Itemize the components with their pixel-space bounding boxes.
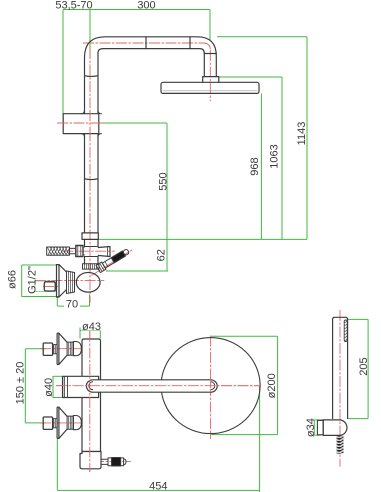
svg-text:ø34: ø34 <box>305 418 317 437</box>
svg-text:ø200: ø200 <box>266 373 278 398</box>
svg-text:53,5-70: 53,5-70 <box>55 0 92 12</box>
svg-text:70: 70 <box>66 298 78 310</box>
svg-text:454: 454 <box>149 480 167 492</box>
svg-text:1063: 1063 <box>269 144 281 168</box>
svg-text:150 ± 20: 150 ± 20 <box>15 362 27 405</box>
svg-text:550: 550 <box>158 172 170 190</box>
svg-text:300: 300 <box>137 0 155 12</box>
svg-text:ø66: ø66 <box>7 270 19 289</box>
svg-text:205: 205 <box>358 357 370 375</box>
svg-text:968: 968 <box>249 157 261 175</box>
svg-text:ø40: ø40 <box>43 378 55 397</box>
svg-text:62: 62 <box>156 249 168 261</box>
svg-text:ø43: ø43 <box>82 321 101 333</box>
svg-text:1143: 1143 <box>296 122 308 146</box>
svg-text:G1/2": G1/2" <box>27 266 39 294</box>
